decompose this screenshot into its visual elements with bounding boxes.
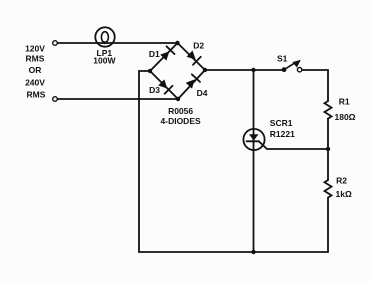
wire: bridge edge top node to right node	[178, 43, 206, 70]
wire: bridge edge left node to top node	[150, 43, 178, 71]
svg-text:RMS: RMS	[26, 54, 45, 64]
diode D4	[186, 74, 200, 88]
wire: SCR anode/cathode branch from top junction to bottom rail	[253, 70, 255, 252]
svg-text:100W: 100W	[93, 56, 116, 66]
svg-text:R2: R2	[336, 176, 347, 186]
node: bridge left node	[148, 69, 152, 73]
wire: right rail from R2 to bottom rail corner	[327, 198, 329, 252]
terminal: top input terminal	[53, 41, 58, 46]
diode D3	[158, 79, 172, 93]
wire: right node to switch S1	[205, 69, 284, 71]
node: junction of SCR gate on right rail	[326, 147, 330, 151]
wire: right rail from corner down to R1	[327, 70, 329, 101]
svg-text:R0056: R0056	[168, 106, 193, 116]
node: bridge bottom node	[176, 97, 180, 101]
svg-text:R1: R1	[339, 97, 350, 107]
svg-text:SCR1: SCR1	[270, 118, 293, 128]
wire: bridge edge bottom node to right node	[178, 70, 205, 99]
wire: bottom input wire from terminal to bridge bottom node	[57, 98, 178, 100]
node: junction of SCR cathode with bottom rail	[251, 250, 255, 254]
node: bridge right node	[203, 68, 207, 72]
svg-text:D1: D1	[149, 49, 160, 59]
lamp LP1	[95, 27, 114, 46]
terminal: bottom input terminal	[53, 97, 58, 102]
svg-text:D2: D2	[193, 41, 204, 51]
switch S1	[282, 60, 302, 72]
wire: SCR gate wire to right rail	[259, 141, 328, 149]
wire: top input wire from terminal through LP1 to bridge top node	[57, 42, 177, 44]
svg-text:1kΩ: 1kΩ	[336, 189, 352, 199]
svg-text:R1221: R1221	[270, 129, 295, 139]
svg-text:D3: D3	[149, 85, 160, 95]
resistor R1	[325, 101, 332, 119]
wire: switch S1 to right rail corner	[302, 69, 328, 71]
node: bridge top node	[175, 41, 179, 45]
svg-text:RMS: RMS	[27, 90, 46, 100]
diode D2	[187, 51, 201, 65]
svg-text:OR: OR	[29, 65, 42, 75]
svg-text:D4: D4	[197, 88, 208, 98]
wire: left return rail down to bottom rail	[138, 71, 140, 252]
svg-text:240V: 240V	[25, 78, 45, 88]
resistor R2	[325, 180, 332, 198]
wire: bottom rail	[139, 251, 328, 253]
svg-text:S1: S1	[277, 54, 288, 64]
svg-text:120V: 120V	[25, 44, 45, 54]
node: junction of SCR anode branch on top wire	[251, 68, 255, 72]
wire: left node stub to left return rail	[139, 70, 150, 72]
SCR U1 SCR1	[243, 129, 264, 150]
diode D1	[160, 46, 174, 60]
wire: right rail between R1 and R2	[327, 119, 329, 180]
svg-text:4-DIODES: 4-DIODES	[161, 116, 201, 126]
svg-text:180Ω: 180Ω	[335, 112, 356, 122]
wire: bridge edge left node to bottom node	[150, 71, 178, 99]
